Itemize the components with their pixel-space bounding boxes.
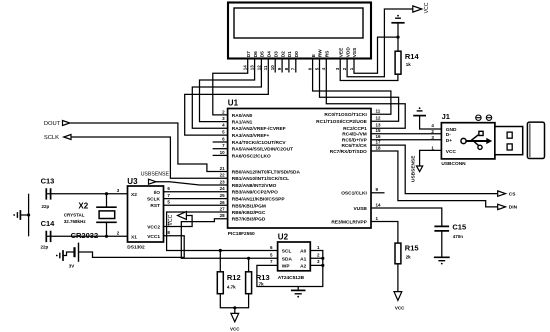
USB plug body: [527, 122, 544, 158]
svg-text:10: 10: [220, 150, 226, 155]
capacitor C13: [46, 188, 50, 199]
svg-text:5: 5: [270, 253, 273, 258]
svg-text:VUSB: VUSB: [353, 206, 367, 212]
svg-text:1k: 1k: [406, 62, 412, 67]
svg-text:USBSENSE: USBSENSE: [141, 171, 170, 177]
wire ground to R14 top: [397, 23, 399, 51]
svg-text:RB5/KBI1/PGM: RB5/KBI1/PGM: [232, 203, 266, 209]
LCD pin numbers rotated: [243, 65, 354, 71]
svg-text:RC1/T1OSI/CCP2/UOE: RC1/T1OSI/CCP2/UOE: [316, 119, 367, 125]
svg-text:22p: 22p: [42, 204, 50, 209]
power flag VCC (below R12/R13): [231, 313, 239, 321]
svg-text:3: 3: [335, 67, 340, 70]
svg-text:C13: C13: [41, 177, 55, 186]
U3 reference label: [127, 177, 138, 186]
terminal flag SCLK: [64, 135, 71, 140]
wire R12 top to SCL junction: [219, 249, 222, 272]
svg-text:RB0/AN12/INT0/FLT0/SDI/SDA: RB0/AN12/INT0/FLT0/SDI/SDA: [232, 169, 301, 175]
svg-text:RC5/D+/VP: RC5/D+/VP: [342, 138, 368, 144]
resistor R13: [246, 272, 252, 294]
stub U1 pin 7 RA5 n.c.: [213, 148, 228, 150]
svg-text:RB3/AN9/CCP2/VPO: RB3/AN9/CCP2/VPO: [232, 190, 278, 196]
stub LCD D1 n.c.: [288, 59, 290, 73]
svg-text:RC2/CCP1: RC2/CCP1: [343, 126, 367, 132]
svg-text:C14: C14: [41, 219, 56, 228]
svg-text:11: 11: [376, 109, 381, 114]
stub U1 pin 10 RA6 n.c.: [213, 154, 228, 156]
svg-text:RB6/KBI2/PGC: RB6/KBI2/PGC: [232, 210, 266, 216]
R14 labels: [405, 52, 420, 67]
svg-text:USBSENSE: USBSENSE: [410, 155, 416, 182]
C13 labels: [41, 177, 55, 209]
svg-text:RS: RS: [325, 50, 331, 57]
R15 labels: [405, 244, 419, 260]
svg-text:RST: RST: [150, 203, 160, 209]
U2 part value AT24C512B: [278, 275, 305, 281]
wire R12/R13 bottoms to VCC flag: [220, 294, 248, 314]
svg-text:12: 12: [376, 116, 382, 121]
svg-text:7: 7: [270, 259, 273, 264]
svg-text:2: 2: [342, 67, 347, 70]
U1 reference label: [228, 99, 239, 108]
ground (left of C13/C14): [13, 210, 20, 220]
svg-text:12: 12: [256, 65, 261, 71]
U2 reference label: [278, 233, 289, 242]
svg-text:VCC: VCC: [395, 305, 405, 310]
svg-text:1: 1: [376, 216, 379, 221]
svg-text:3: 3: [222, 116, 225, 121]
wire LCD RW to U1 pin 12 RC1: [320, 59, 399, 122]
U1 left pin names: [232, 113, 301, 223]
ground (top right near LCD): [391, 15, 404, 23]
svg-text:5: 5: [314, 67, 319, 70]
svg-text:WP: WP: [282, 264, 291, 270]
junction node VSS/GND/R14: [396, 36, 399, 39]
USB plug metal shell: [495, 127, 523, 155]
wire node X1 bottom row C14/crystal/U3.X1: [46, 235, 127, 238]
svg-text:32.768kHz: 32.768kHz: [64, 219, 87, 224]
wire U1 pin 14 VUSB to C15: [371, 208, 442, 226]
svg-text:22: 22: [220, 173, 226, 178]
ground (battery minus): [56, 250, 63, 261]
svg-text:2: 2: [117, 231, 120, 236]
svg-text:23: 23: [220, 179, 226, 184]
svg-text:27: 27: [220, 206, 226, 211]
X2 labels: [64, 201, 89, 224]
svg-text:RC6/TX/CK: RC6/TX/CK: [341, 143, 367, 149]
wire LCD D7 to U1 pin 2 RA0: [213, 59, 248, 115]
polarity mark circled-minus 2: [486, 115, 491, 120]
svg-text:2: 2: [222, 109, 225, 114]
svg-text:4: 4: [431, 123, 434, 128]
svg-text:9: 9: [376, 187, 379, 192]
svg-text:VCC1: VCC1: [147, 234, 160, 240]
wire node X2 top row C13/crystal/U3.X2: [46, 192, 127, 195]
J1 pin names: [446, 127, 457, 155]
R13 label: [256, 273, 270, 282]
svg-text:CRYSTAL: CRYSTAL: [64, 212, 85, 217]
wire U3 VCC2 to VCC left flag: [164, 216, 193, 227]
svg-text:VCC: VCC: [230, 327, 240, 332]
svg-text:RC4/D-/VM: RC4/D-/VM: [342, 132, 367, 138]
SCLK label: [44, 135, 59, 141]
wire LCD E to U1 pin 11 RC0: [313, 59, 391, 115]
U2 pin names: [282, 249, 307, 270]
svg-text:8: 8: [167, 230, 170, 235]
svg-text:USBCONN: USBCONN: [441, 161, 466, 167]
crystal X2: [96, 207, 117, 222]
svg-text:21: 21: [220, 166, 226, 171]
svg-text:RB1/AN10/INT1/SCK/SCL: RB1/AN10/INT1/SCK/SCL: [232, 176, 289, 182]
svg-text:X2: X2: [131, 192, 137, 198]
battery labels CR2032 3V: [69, 231, 98, 268]
svg-text:6: 6: [167, 186, 170, 191]
svg-text:8: 8: [284, 67, 289, 70]
svg-text:24: 24: [220, 186, 226, 191]
svg-text:R14: R14: [405, 52, 420, 61]
svg-text:D-: D-: [446, 132, 451, 138]
LCD pin name labels rotated: [246, 47, 358, 58]
LCD display window: [234, 8, 363, 38]
svg-text:6: 6: [222, 136, 225, 141]
wire U1 pin 18 RC7 to DIN flag: [371, 151, 498, 207]
wire U1 pin 27 RB6 to U2 SCL: [167, 212, 278, 251]
wire U3 RST to U1 pin 26 RB5: [164, 204, 228, 206]
power flag VCC (below R15): [394, 292, 402, 301]
svg-text:C15: C15: [452, 223, 466, 232]
capacitor C15: [434, 226, 449, 231]
resistor R14: [395, 51, 401, 74]
svg-text:AT24C512B: AT24C512B: [278, 275, 305, 281]
svg-text:VCC: VCC: [446, 149, 457, 155]
svg-text:RA5/AN4/SS/LVDIN/C2OUT: RA5/AN4/SS/LVDIN/C2OUT: [232, 147, 293, 153]
value label 7k of R13: [259, 281, 265, 286]
svg-text:2: 2: [317, 253, 320, 258]
U3 part value DS1302: [127, 245, 145, 251]
wire battery ground jog: [63, 252, 75, 256]
svg-text:J1: J1: [442, 112, 450, 121]
svg-text:U1: U1: [228, 99, 239, 108]
svg-text:RB4/AN11/KBI0/CSSPP: RB4/AN11/KBI0/CSSPP: [232, 197, 286, 203]
USB logo inside J1: [461, 131, 492, 149]
svg-text:14: 14: [376, 202, 382, 207]
net flag USBSENSE (down arrow at J1 VCC): [417, 166, 423, 172]
wire crystal stems: [106, 194, 108, 237]
U1 part value PIC18F2550: [228, 231, 255, 237]
svg-text:11: 11: [263, 65, 268, 70]
J1 USBCONN body: [441, 123, 495, 159]
wire U2 ground stem: [297, 287, 299, 291]
resistor R15: [395, 243, 401, 264]
svg-text:RB7/KBI3/PGD: RB7/KBI3/PGD: [232, 217, 266, 223]
CS label: [509, 191, 516, 197]
svg-text:RA2/AN2/VREF-/CVREF: RA2/AN2/VREF-/CVREF: [232, 126, 286, 132]
svg-text:3V: 3V: [69, 263, 75, 268]
svg-text:VCC: VCC: [424, 2, 430, 13]
svg-text:RC7/RX/DT/SDO: RC7/RX/DT/SDO: [330, 149, 367, 155]
svg-text:RA1/AN1: RA1/AN1: [232, 120, 253, 126]
svg-text:3: 3: [117, 188, 120, 193]
svg-text:A0: A0: [300, 249, 306, 255]
svg-text:A1: A1: [300, 256, 306, 262]
U3 pin names: [131, 190, 161, 241]
svg-text:4: 4: [222, 123, 225, 128]
wire J1 VCC to USBSENSE down flag: [420, 150, 442, 166]
wire DOUT flag to U1 pin 21 RB0: [70, 123, 228, 172]
svg-text:OSC1/CLKI: OSC1/CLKI: [341, 191, 367, 197]
wire U2 WP/A0/A1/A2 to ground: [257, 251, 325, 287]
svg-text:D+: D+: [446, 138, 452, 144]
wire LCD D6 to U1 pin 3 RA1: [200, 59, 255, 122]
svg-text:RC0/T1OSO/T1CKI: RC0/T1OSO/T1CKI: [324, 112, 367, 118]
svg-text:16: 16: [376, 134, 382, 139]
LCD display module outer box: [228, 3, 371, 59]
svg-text:SCLK: SCLK: [147, 197, 161, 203]
power flag VCC (top right): [413, 6, 422, 12]
svg-text:PIC18F2550: PIC18F2550: [228, 231, 255, 237]
svg-text:SCL: SCL: [282, 249, 292, 255]
svg-text:4.7k: 4.7k: [227, 285, 236, 290]
terminal flag CS: [498, 191, 506, 196]
wire U3 I/O to U1 pin 24 RB3: [164, 191, 228, 193]
wire LCD VSS to ground junction: [354, 37, 398, 73]
wire U1 pin 28 RB7 to U2 SDA: [181, 219, 277, 258]
DIN label: [509, 205, 518, 211]
svg-text:25: 25: [220, 193, 226, 198]
svg-text:7: 7: [167, 193, 170, 198]
U3 DS1302 body: [128, 186, 164, 242]
U1 right pin numbers: [376, 109, 382, 221]
wire battery plus to U3 VCC1: [79, 236, 185, 258]
svg-text:RA6/OSC2/CLKO: RA6/OSC2/CLKO: [232, 153, 271, 159]
svg-text:18: 18: [376, 145, 382, 150]
wire USBSENSE flag to U1 pin 23 RB2: [156, 182, 228, 185]
VCC label rotated (top right): [424, 2, 430, 13]
stub LCD D0 n.c.: [295, 59, 297, 73]
svg-text:5: 5: [222, 130, 225, 135]
wire U1 pin 15 RC4 to J1 D-: [371, 133, 441, 135]
svg-text:RA0/AN0: RA0/AN0: [232, 113, 253, 119]
wire U1 pin 1 RE3/MCLR to R15 top: [371, 222, 398, 244]
svg-text:1: 1: [317, 245, 320, 250]
svg-text:U2: U2: [278, 233, 289, 242]
net flag USBSENSE (left): [149, 179, 157, 184]
svg-text:7k: 7k: [259, 281, 265, 286]
svg-text:R15: R15: [405, 244, 419, 253]
svg-text:13: 13: [376, 123, 382, 128]
power flag VCC (left arrow at U3 VCC2): [178, 212, 187, 220]
svg-text:13: 13: [250, 65, 255, 71]
wire ground to J1 pin 4 GND: [420, 116, 442, 129]
svg-text:7: 7: [222, 143, 225, 148]
C15 labels: [452, 223, 466, 239]
svg-text:14: 14: [243, 65, 248, 71]
wire LCD D5 to U1 pin 4 RA2: [192, 59, 261, 129]
svg-text:DIN: DIN: [509, 205, 518, 211]
ground (above J1): [413, 107, 426, 115]
stub LCD D3 n.c.: [274, 59, 276, 73]
svg-text:5: 5: [167, 200, 170, 205]
svg-text:2k: 2k: [406, 255, 412, 260]
wire LCD D4 to U1 pin 5 RA3: [185, 59, 269, 136]
svg-text:D1: D1: [287, 51, 293, 57]
svg-text:VCC2: VCC2: [147, 225, 160, 231]
svg-text:R12: R12: [227, 273, 241, 282]
U3 pin numbers: [117, 186, 171, 235]
stub LCD D2 n.c.: [281, 59, 283, 73]
svg-text:U3: U3: [127, 177, 138, 186]
svg-text:CS: CS: [509, 191, 516, 197]
svg-text:RA3/AN3/VREF+: RA3/AN3/VREF+: [232, 133, 270, 139]
polarity mark circled-minus 1: [476, 115, 481, 120]
svg-text:I/O: I/O: [154, 190, 161, 196]
VCC label rotated (at U3 VCC2): [168, 214, 174, 225]
wire LCD VDD to VCC flag: [347, 9, 413, 77]
svg-text:X2: X2: [78, 201, 88, 210]
wire C13/C14 left vertical: [27, 194, 30, 237]
svg-text:D3: D3: [273, 51, 279, 57]
svg-text:RE3/MCLR/VPP: RE3/MCLR/VPP: [331, 219, 367, 225]
svg-text:VDD: VDD: [345, 47, 351, 58]
terminal flag DOUT: [63, 121, 70, 126]
svg-text:22p: 22p: [41, 245, 49, 250]
USBSENSE label rotated (at J1): [410, 155, 416, 182]
wire U1 pin 17 RC6 to CS flag: [371, 145, 498, 194]
U1 right pin names: [316, 112, 367, 225]
U2 AT24C512B body: [278, 242, 311, 271]
wire U1 pin 16 RC5 to J1 D+: [371, 139, 441, 141]
svg-text:R13: R13: [256, 273, 270, 282]
svg-text:RW: RW: [318, 49, 324, 57]
op-amp U1 PIC18F2550 body: [228, 109, 371, 229]
svg-text:4: 4: [321, 67, 326, 70]
wire R13 top to SDA junction: [247, 257, 250, 272]
svg-text:D5: D5: [260, 51, 266, 57]
svg-text:470n: 470n: [453, 234, 464, 239]
svg-text:DOUT: DOUT: [44, 121, 61, 127]
svg-text:VSS: VSS: [352, 47, 358, 57]
svg-text:9: 9: [277, 67, 282, 70]
svg-text:15: 15: [376, 128, 382, 133]
ground (below U2): [291, 290, 306, 297]
svg-text:6: 6: [308, 67, 313, 70]
svg-text:D2: D2: [280, 51, 286, 57]
U2 pin numbers: [270, 245, 320, 264]
stub U1 pin 9 OSC1 n.c.: [371, 192, 385, 194]
wire SCLK flag to U1 pin 22 RB1: [71, 137, 228, 178]
USBSENSE label (left): [141, 171, 170, 177]
svg-text:17: 17: [376, 140, 382, 145]
svg-text:A2: A2: [300, 264, 306, 270]
capacitor C14: [46, 231, 50, 242]
resistor R12: [217, 272, 223, 294]
svg-text:26: 26: [220, 200, 226, 205]
VCC label (below R12/R13): [230, 327, 240, 332]
J1 pin numbers: [431, 123, 434, 150]
wire R15 bottom to VCC flag: [397, 264, 399, 292]
terminal flag DIN: [498, 204, 506, 209]
svg-text:1: 1: [349, 67, 354, 70]
U1 left pin numbers: [220, 109, 226, 218]
wire left ground tap: [20, 214, 28, 216]
svg-text:SDA: SDA: [282, 256, 293, 262]
svg-text:CR2032: CR2032: [71, 231, 99, 240]
stub U1 pin 6 RA4 n.c.: [213, 141, 228, 143]
R12 labels: [227, 273, 241, 290]
svg-text:10: 10: [270, 65, 275, 71]
J1 reference label: [442, 112, 450, 121]
svg-text:RB2/AN8/INT2/VMO: RB2/AN8/INT2/VMO: [232, 183, 277, 189]
svg-text:D7: D7: [246, 51, 252, 57]
wire LCD VEE to R14 bottom: [340, 59, 398, 81]
svg-text:SCLK: SCLK: [44, 135, 59, 141]
svg-text:VEE: VEE: [338, 47, 344, 57]
svg-text:D6: D6: [253, 51, 259, 57]
wire C15 bottom to ground: [441, 231, 443, 257]
svg-text:3: 3: [317, 259, 320, 264]
wire LCD RS to U1 pin 13 RC2: [326, 59, 405, 129]
VCC label (below R15): [395, 305, 405, 310]
svg-text:28: 28: [220, 213, 226, 218]
svg-text:X1: X1: [131, 234, 137, 240]
svg-text:RA4/T0CKI/C1OUT/RCV: RA4/T0CKI/C1OUT/RCV: [232, 140, 287, 146]
DOUT label: [44, 121, 61, 127]
C14 labels: [41, 219, 56, 250]
svg-text:7: 7: [291, 67, 296, 70]
J1 part value USBCONN: [441, 161, 466, 167]
battery CR2032: [75, 243, 79, 262]
svg-text:DS1302: DS1302: [127, 245, 145, 251]
svg-text:VCC: VCC: [168, 214, 174, 225]
ground (below C15): [434, 257, 450, 264]
svg-text:6: 6: [270, 245, 273, 250]
svg-text:D4: D4: [267, 51, 273, 57]
svg-text:D0: D0: [294, 51, 300, 57]
wire U3 SCLK to U1 pin 25 RB4: [164, 198, 228, 200]
